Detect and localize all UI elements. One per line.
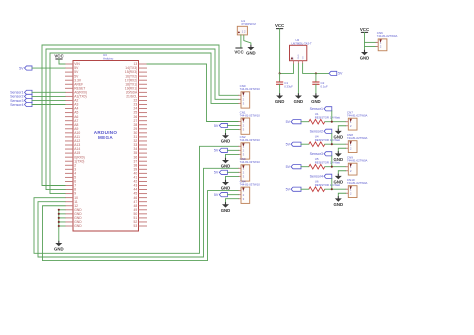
svg-text:RESISTOR 1/4 Watt: RESISTOR 1/4 Watt — [315, 138, 341, 142]
wire 5V to CN4 pin 2 — [227, 194, 238, 196]
ground at CN2 — [221, 158, 231, 169]
node Sensor2 flag row — [310, 129, 332, 133]
connector CN8 744-81-02TW0A — [346, 133, 368, 153]
wire 5V flag to 5V pin — [32, 67, 65, 69]
wire 5V to resistor U6 — [301, 188, 309, 190]
svg-text:GND: GND — [311, 99, 321, 104]
ground at C2 — [311, 93, 321, 104]
junction VCC node at C1 — [279, 72, 281, 74]
wire 5V to CN1 pin 2 — [227, 125, 238, 127]
svg-text:RESISTOR 1/4 Watt: RESISTOR 1/4 Watt — [315, 183, 341, 187]
wire Sensor1 down to row net — [331, 111, 333, 122]
node 5V flag at CN4 — [214, 193, 228, 197]
wire VCC down to input node — [279, 29, 281, 74]
wire Arduino pin 13 to CN1 pin 1 — [147, 64, 238, 122]
junction GND pin 5 — [58, 225, 60, 227]
node 5V flag at CN3 — [214, 170, 228, 174]
node Sensor1 flag row — [310, 107, 332, 111]
node 5V output flag — [329, 71, 343, 75]
connector CN2 744-81-03TW10 — [238, 135, 260, 159]
connector CN7 744-81-02TW0A — [346, 111, 368, 131]
svg-text:53: 53 — [134, 224, 138, 228]
svg-text:GND: GND — [221, 164, 231, 169]
wire VCC/GND riser at CN6 — [364, 32, 366, 46]
wire H1 pin 2 to ground — [244, 35, 251, 45]
VCC supply at VIN — [54, 54, 64, 59]
svg-text:1 2: 1 2 — [242, 29, 246, 33]
connector CN3 744-81-03TW10 — [238, 157, 260, 181]
connector CN6 744-81-02TW0A — [376, 31, 398, 51]
node 5V flag row 1 — [286, 120, 301, 124]
IC U3 Arduino MEGA microcontroller board — [65, 53, 147, 231]
svg-text:0.33uF: 0.33uF — [284, 85, 293, 89]
wire GND bundle down — [58, 210, 60, 241]
wire Sensor3 down to row net — [331, 156, 333, 167]
svg-text:5V: 5V — [19, 66, 24, 70]
ground at U2 — [294, 93, 304, 104]
svg-text:GND: GND — [221, 208, 231, 213]
svg-text:5V: 5V — [214, 193, 219, 197]
wire GND pin 5 jumper — [59, 225, 65, 227]
wire 5V to CN3 pin 2 — [227, 171, 238, 173]
svg-text:XT30PW-M: XT30PW-M — [241, 22, 256, 26]
svg-text:5V: 5V — [214, 149, 219, 153]
svg-text:744-81-03TW10: 744-81-03TW10 — [240, 138, 261, 142]
ground at CN9 — [334, 174, 344, 185]
connector CN10 744-81-02TW0A — [346, 178, 368, 198]
svg-text:Sensor2: Sensor2 — [310, 130, 323, 134]
svg-text:VO: VO — [303, 56, 305, 59]
svg-text:RESISTOR 1/4 Watt: RESISTOR 1/4 Watt — [315, 115, 341, 119]
junction row 3 — [331, 166, 333, 168]
svg-text:MEGA: MEGA — [98, 135, 113, 140]
wire resistor U5 to CN9 pin 1 — [325, 166, 346, 168]
junction GND pin 4 — [58, 221, 60, 223]
svg-text:744-81-03TW10: 744-81-03TW10 — [240, 87, 261, 91]
node 5V flag row 2 — [286, 142, 301, 146]
wire C2 to ground — [315, 84, 317, 93]
svg-text:Sensor3: Sensor3 — [310, 152, 323, 156]
svg-text:GND: GND — [298, 54, 300, 59]
svg-text:Sensor4: Sensor4 — [310, 175, 323, 179]
svg-text:GND: GND — [54, 247, 64, 252]
svg-text:RESISTOR 1/4 Watt: RESISTOR 1/4 Watt — [315, 160, 341, 164]
wire U2 VO to 5V node — [303, 64, 329, 74]
svg-text:GND: GND — [74, 224, 82, 228]
svg-text:744-81-02TW0A: 744-81-02TW0A — [347, 159, 368, 163]
junction 5V node at C2 — [315, 72, 317, 74]
svg-text:GND: GND — [221, 139, 231, 144]
junction GND pin 1 — [58, 209, 60, 211]
wire Sensor1 to A0 — [32, 91, 65, 93]
wire H1 pin 1 to VCC — [240, 35, 242, 48]
connector CN0 744-81-03TW10 — [238, 84, 260, 108]
junction GND pin 2 — [58, 213, 60, 215]
capacitor C1 0.33uF — [276, 81, 293, 89]
svg-text:Sensor1: Sensor1 — [310, 107, 323, 111]
wire C1 to ground — [279, 84, 281, 93]
node 5V flag row 4 — [286, 187, 301, 191]
wire 5V to CN2 pin 2 — [227, 149, 238, 151]
svg-text:744-81-02TW0A: 744-81-02TW0A — [377, 34, 398, 38]
wire down to ground CN6 — [364, 46, 366, 49]
wire CN1 pin 3 to ground — [226, 130, 239, 133]
capacitor C2 0.1uF — [312, 81, 328, 89]
resistor U4 1/4 Watt — [309, 135, 340, 147]
node 5V flag to Arduino 5V pin — [19, 66, 32, 70]
wire Sensor4 to A3 — [32, 104, 65, 106]
wire GND pin 2 jumper — [59, 213, 65, 215]
node 5V flag row 3 — [286, 165, 301, 169]
svg-text:GND: GND — [221, 186, 231, 191]
wire input node to U2 VI — [280, 64, 294, 74]
resistor U6 1/4 Watt — [309, 180, 340, 192]
wire VCC to VIN — [59, 59, 65, 64]
wire resistor U6 to CN10 pin 1 — [325, 188, 346, 190]
wire 5V to resistor U4 — [301, 143, 309, 145]
ground at CN10 — [334, 196, 344, 207]
wire GND pin 4 jumper — [59, 221, 65, 223]
wire VCC node down to C1 — [279, 73, 281, 82]
connector CN4 744-81-03TW10 — [238, 179, 260, 203]
VCC supply at CN6 — [360, 27, 370, 32]
svg-text:VCC: VCC — [360, 27, 370, 32]
connector CN9 744-81-02TW0A — [346, 156, 368, 176]
node Sensor1 flag — [10, 90, 32, 94]
wire 5V to resistor U5 — [301, 166, 309, 168]
node Sensor3 flag row — [310, 152, 332, 156]
svg-text:744-81-02TW0A: 744-81-02TW0A — [347, 136, 368, 140]
svg-text:744-81-03TW10: 744-81-03TW10 — [240, 182, 261, 186]
wire Arduino pin 9 to CN0 pin 3 — [50, 53, 238, 194]
svg-text:744-81-02TW0A: 744-81-02TW0A — [347, 181, 368, 185]
junction row 1 — [331, 121, 333, 123]
ground at CN4 — [221, 202, 231, 213]
node 5V flag at CN1 — [214, 123, 228, 127]
wire CN9 pin 2 to ground — [338, 171, 345, 174]
node Sensor2 flag — [10, 94, 32, 98]
wire GND pin 3 jumper — [59, 217, 65, 219]
ground at C1 — [275, 93, 285, 104]
wire CN3 pin 3 to ground — [226, 176, 239, 179]
wire VCC to CN6 pin 1 — [365, 41, 377, 43]
svg-text:5V: 5V — [338, 72, 343, 76]
ground at CN3 — [221, 180, 231, 191]
connector H1 XT30PW-M power input — [237, 19, 256, 35]
svg-text:5V: 5V — [286, 188, 291, 192]
VCC supply below H1 — [234, 48, 244, 54]
svg-text:GND: GND — [360, 56, 370, 61]
connector CN1 744-81-03TW10 — [238, 110, 260, 134]
svg-text:5V: 5V — [286, 143, 291, 147]
VCC supply above regulator — [275, 23, 285, 28]
wire Arduino pin 11 to CN3 pin 1 — [38, 168, 238, 257]
wire Sensor4 down to row net — [331, 178, 333, 189]
node Sensor3 flag — [10, 98, 32, 102]
ground at CN6 — [360, 50, 370, 61]
wire CN10 pin 2 to ground — [338, 193, 345, 196]
svg-text:5V: 5V — [214, 171, 219, 175]
wire 5V to resistor U1 — [301, 121, 309, 123]
wire resistor U4 to CN8 pin 1 — [325, 143, 346, 145]
svg-text:VCC: VCC — [234, 49, 244, 54]
svg-text:GND: GND — [334, 202, 344, 207]
svg-text:5V: 5V — [214, 124, 219, 128]
svg-text:0.1uF: 0.1uF — [321, 85, 328, 89]
wire Sensor2 down to row net — [331, 133, 333, 144]
svg-text:GND: GND — [275, 99, 285, 104]
ground below H1 — [246, 45, 256, 56]
svg-text:744-81-03TW10: 744-81-03TW10 — [240, 113, 261, 117]
ground at CN7 — [334, 129, 344, 140]
wire Arduino pin 10 to CN2 pin 1 — [34, 146, 238, 253]
wire Arduino pin 7 to CN0 pin 1 — [42, 45, 238, 186]
wire CN7 pin 2 to ground — [338, 126, 345, 129]
svg-text:5V: 5V — [286, 165, 291, 169]
junction GND pin 3 — [58, 217, 60, 219]
wire Sensor2 to A1 — [32, 95, 65, 97]
wire Arduino pin 12 to CN4 pin 1 — [43, 191, 239, 261]
ground at CN1 — [221, 133, 231, 144]
wire U2 GND pin down — [297, 64, 299, 94]
svg-text:744-81-02TW0A: 744-81-02TW0A — [347, 114, 368, 118]
svg-text:5V: 5V — [286, 120, 291, 124]
junction row 2 — [331, 143, 333, 145]
ground below Arduino — [54, 241, 64, 252]
wire CN4 pin 3 to ground — [226, 199, 239, 202]
svg-text:GND: GND — [246, 51, 256, 56]
svg-text:Sensor4: Sensor4 — [10, 103, 23, 107]
resistor U5 1/4 Watt — [309, 157, 340, 169]
transistor U2 LM7805L-TA3-T voltage regulator — [290, 38, 312, 64]
svg-text:VCC: VCC — [54, 54, 64, 59]
svg-text:LM7805L-TA3-T: LM7805L-TA3-T — [292, 41, 312, 45]
wire Sensor3 to A2 — [32, 99, 65, 101]
wire CN8 pin 2 to ground — [338, 148, 345, 151]
resistor U1 1/4 Watt — [309, 112, 340, 124]
svg-text:GND: GND — [294, 99, 304, 104]
node Sensor4 flag — [10, 102, 32, 106]
svg-text:Arduino: Arduino — [103, 56, 114, 60]
svg-text:VCC: VCC — [275, 23, 285, 28]
node 5V flag at CN2 — [214, 148, 228, 152]
wire resistor U1 to CN7 pin 1 — [325, 121, 346, 123]
wire 5V node down to C2 — [315, 73, 317, 82]
junction row 4 — [331, 188, 333, 190]
wire CN2 pin 3 to ground — [226, 154, 239, 157]
wire CN6 pin 2 to ground — [365, 45, 377, 47]
ground at CN8 — [334, 151, 344, 162]
wire Arduino pin 8 to CN0 pin 2 — [46, 49, 238, 190]
svg-text:744-81-03TW10: 744-81-03TW10 — [240, 160, 261, 164]
node Sensor4 flag row — [310, 174, 332, 178]
wire GND pin 1 jumper — [59, 209, 65, 211]
